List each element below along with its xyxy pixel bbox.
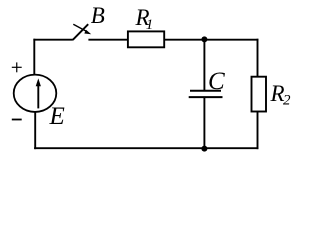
svg-text:1: 1	[146, 17, 154, 33]
label R2	[270, 81, 292, 109]
resistor R2	[252, 77, 267, 112]
wire: bottom horizontal rail	[34, 147, 258, 149]
wire: capacitor bottom plate to node B	[203, 97, 205, 149]
switch B closing-direction arrow	[73, 24, 91, 34]
svg-text:E: E	[49, 103, 65, 130]
label R1	[135, 5, 154, 33]
svg-text:C: C	[208, 68, 225, 95]
source E circle	[14, 75, 57, 112]
wire: node A down to capacitor top plate	[203, 40, 205, 91]
node B (bottom junction dot)	[201, 146, 207, 152]
wire: node A to top-right corner	[204, 39, 258, 41]
node A (top junction dot)	[201, 36, 207, 42]
wire: left side vertical, source down to bottom-left corner	[34, 112, 36, 150]
wire: R2 down to bottom-right corner	[257, 112, 259, 150]
wire: left side vertical, corner down to source	[33, 39, 35, 76]
svg-text:B: B	[91, 3, 105, 28]
wire: right side vertical, corner down to R2	[257, 39, 259, 78]
polarity plus sign	[12, 62, 22, 72]
source E internal arrow	[36, 78, 41, 108]
switch B blade	[73, 24, 89, 40]
capacitor C plates	[189, 91, 223, 97]
resistor R1	[128, 31, 164, 47]
svg-text:2: 2	[283, 93, 291, 109]
polarity minus sign	[12, 119, 22, 121]
wire: R1 to node A	[164, 39, 204, 41]
wire: top-left horizontal segment from corner to switch	[33, 39, 73, 41]
wire: switch to R1	[88, 39, 128, 41]
